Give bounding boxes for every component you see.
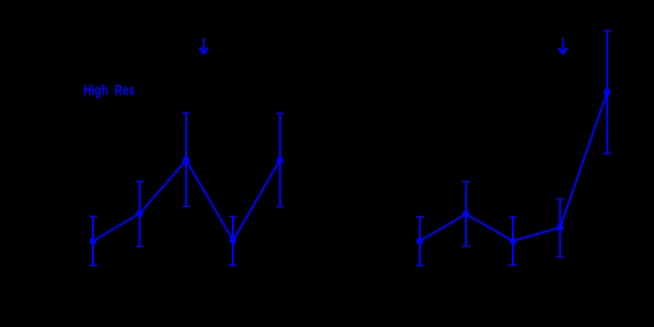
right marker 2 (463, 211, 470, 218)
left marker 1 (90, 238, 97, 245)
left marker 3 (183, 157, 190, 164)
left errorbar 1 (89, 216, 97, 265)
right marker 1 (416, 238, 423, 245)
right marker 3 (510, 238, 517, 245)
right panel data polyline (420, 92, 607, 241)
left marker 4 (230, 237, 237, 244)
right errorbar 1 (416, 217, 424, 266)
right down-arrow (559, 38, 567, 54)
right errorbar 3 (509, 217, 517, 265)
right errorbar 5 (603, 31, 611, 154)
left errorbar 2 (136, 181, 144, 246)
left marker 2 (136, 210, 143, 217)
svg-text:High Res: High Res (84, 83, 136, 99)
right errorbar 2 (462, 182, 470, 247)
right marker 5 (604, 89, 611, 96)
left errorbar 5 (276, 114, 284, 207)
right marker 4 (557, 224, 564, 231)
left marker 5 (277, 157, 284, 164)
left errorbar 3 (182, 113, 190, 206)
left down-arrow (200, 38, 208, 54)
left errorbar 4 (229, 217, 237, 266)
right errorbar 4 (556, 199, 564, 257)
left panel data polyline (93, 160, 280, 241)
